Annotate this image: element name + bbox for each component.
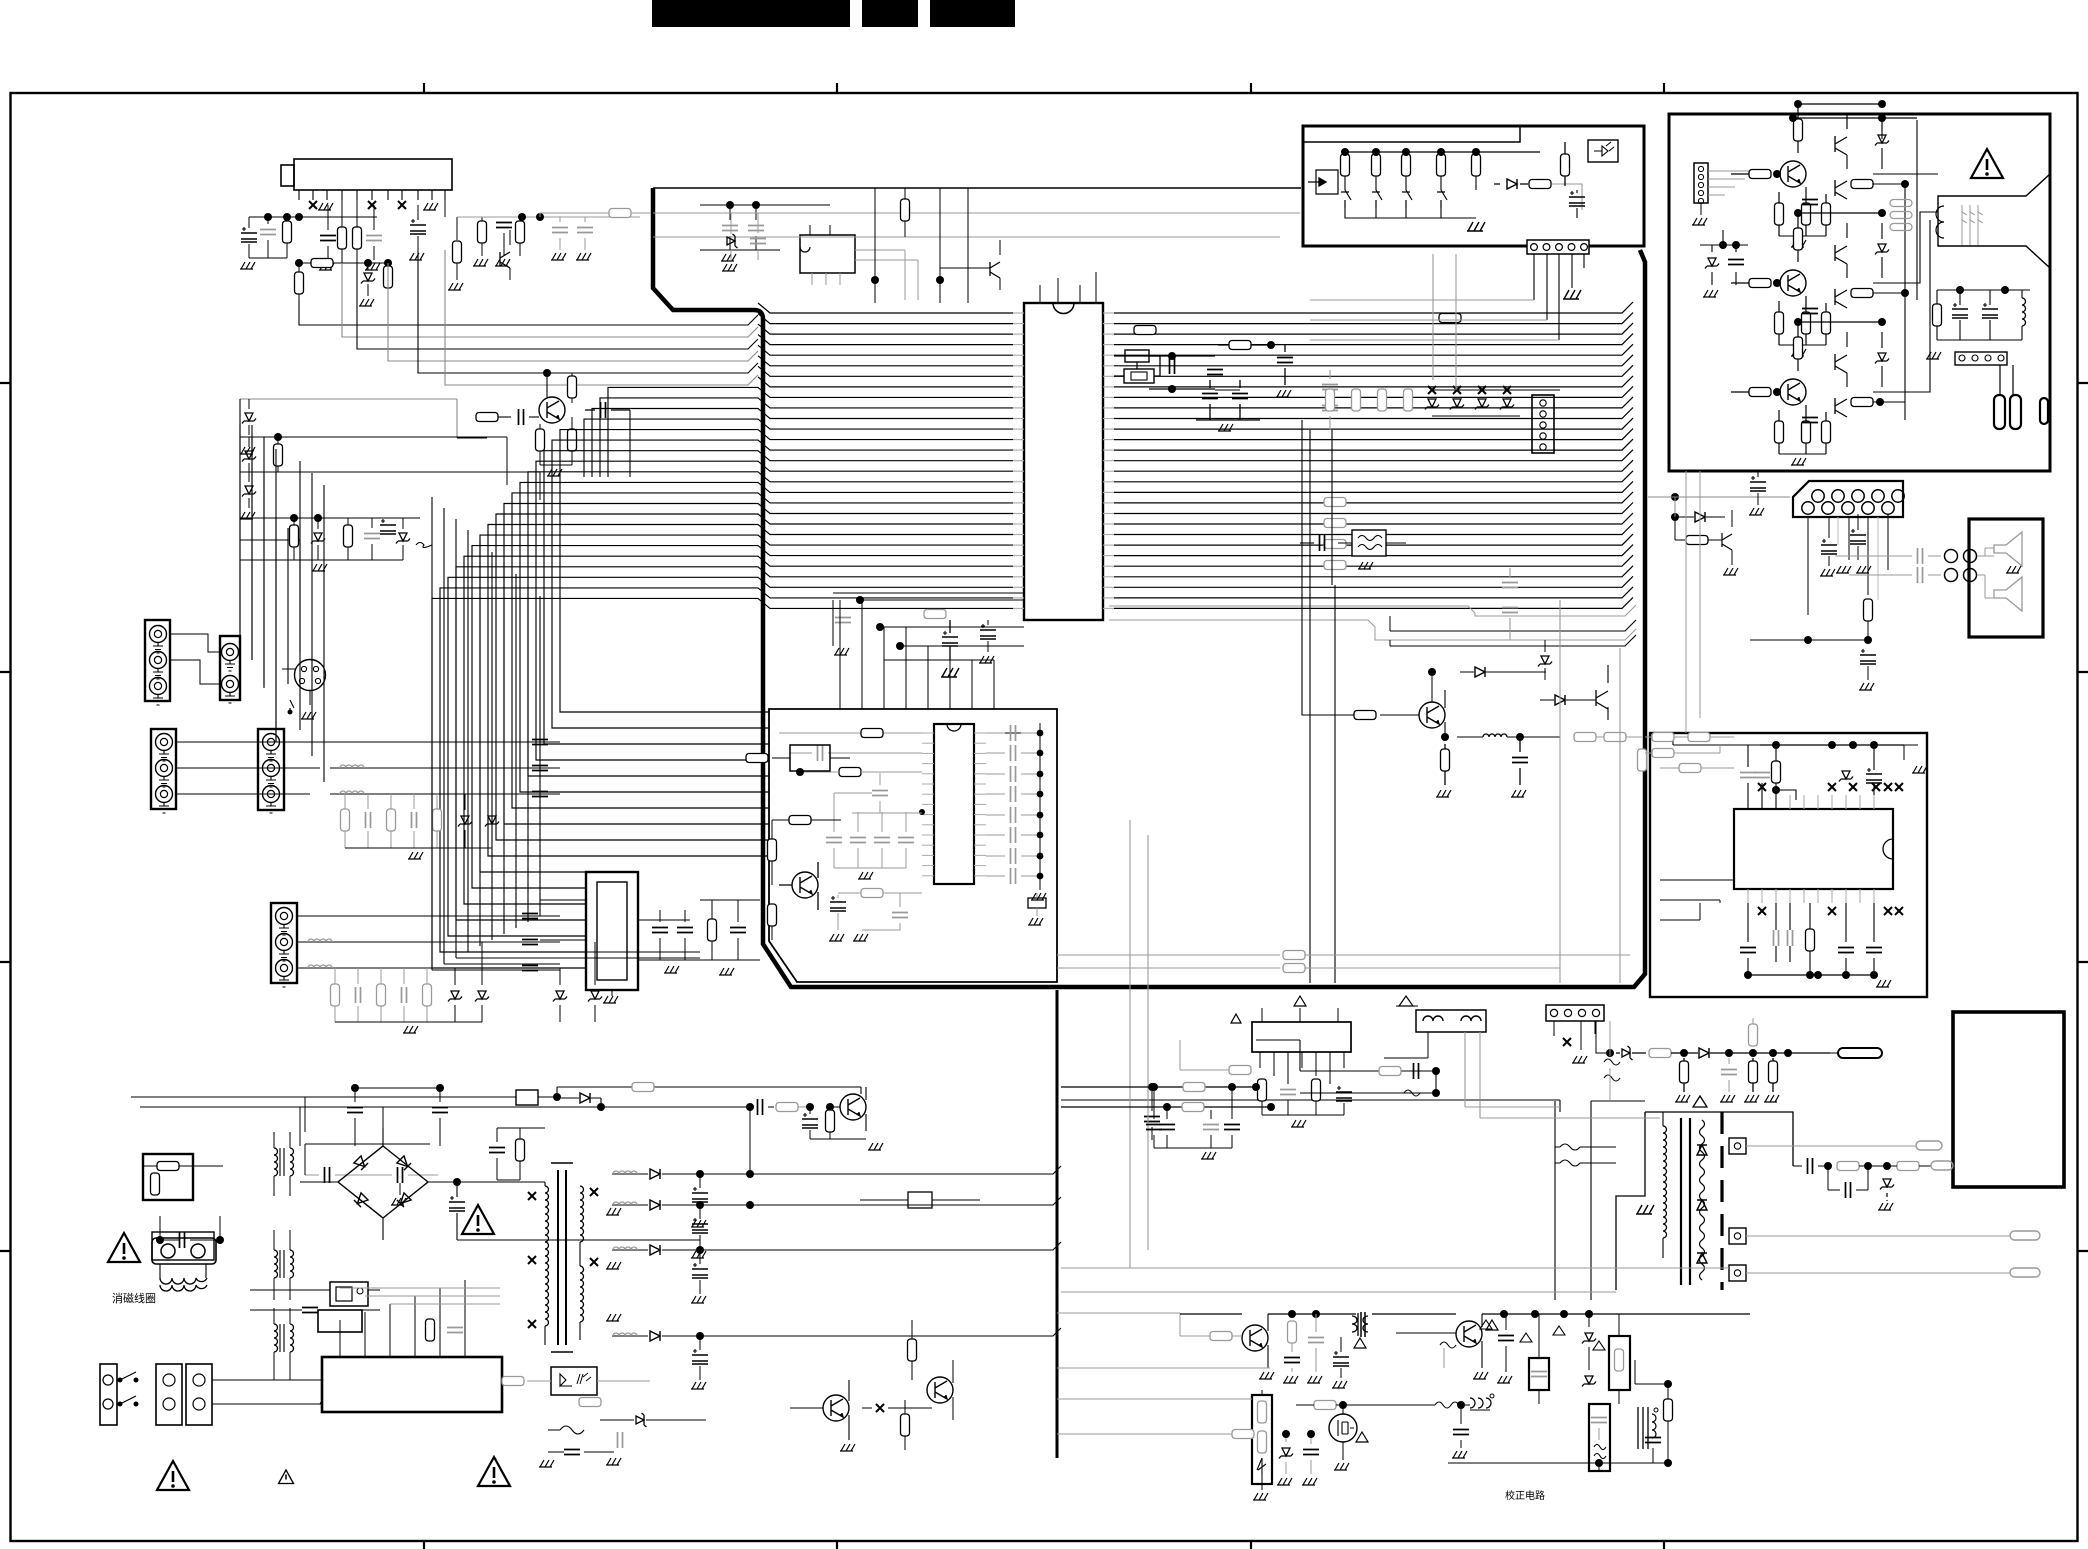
- U2 pin stubs: [922, 732, 934, 734]
- keyboard drop verticals: [1433, 254, 1456, 390]
- PSU secondary diodes: [650, 1169, 660, 1179]
- pincushion divider box: [1252, 1395, 1272, 1484]
- bridge top caps: [347, 1108, 363, 1113]
- keyboard switches: [1341, 190, 1351, 208]
- B+ to FBT: [1061, 1087, 1560, 1112]
- linearity cap: [1645, 1438, 1661, 1443]
- AFT feed: [445, 200, 457, 240]
- width coil: [1470, 1398, 1491, 1408]
- DIN switch: [290, 700, 294, 714]
- tuner ecap right: [410, 219, 426, 234]
- H-out rail: [1482, 1313, 1750, 1315]
- FBT rectifier diodes: [1697, 1145, 1707, 1155]
- yoke connector wires: [1384, 1032, 1428, 1058]
- U3 bottom caps: [1774, 930, 1779, 946]
- ABL sense resistor: [1604, 1059, 1620, 1081]
- U3 top pins: [1747, 795, 1749, 809]
- AV out caps: [1821, 539, 1837, 554]
- warning triangle CRT: [1971, 149, 2003, 178]
- vertical block pins: [1259, 1052, 1261, 1068]
- FBT dashed insulation: [1720, 1112, 1723, 1290]
- U2 bottom RC: [861, 889, 883, 898]
- width cap: [1453, 1430, 1469, 1435]
- MOSFET gate resistor: [1314, 1401, 1336, 1410]
- snubber: [516, 1139, 525, 1161]
- AV3 jack block: [151, 729, 176, 809]
- filter cluster under tuner: [240, 518, 420, 540]
- reset RC: [1229, 341, 1251, 350]
- FBT inner box line: [1591, 1101, 1645, 1300]
- audio box feed 2: [1652, 749, 1674, 758]
- chroma trap: [708, 919, 717, 941]
- tuner block TU1: [294, 159, 452, 190]
- sub-board inner border: [769, 709, 1057, 982]
- x marks row: [1428, 386, 1436, 394]
- ceramic filter CF1: [1352, 530, 1386, 556]
- deflection 4pin connector: [1546, 1005, 1604, 1021]
- T3 secondary winding: [580, 1186, 584, 1214]
- X2 safety caps: [302, 1308, 318, 1313]
- tuner AGC row: [295, 259, 303, 267]
- mute Q cluster: [1671, 493, 1679, 501]
- tuner pin stubs: [298, 190, 300, 200]
- AV in coupling caps: [532, 740, 548, 745]
- diode pair: [1555, 695, 1565, 705]
- CRT driver stage 1: [1780, 161, 1806, 187]
- yoke connector coils: [1416, 1010, 1486, 1032]
- U3 top x marks: [1758, 783, 1766, 791]
- tuner mid caps: [320, 236, 336, 241]
- U1 bypass cap: [942, 631, 958, 646]
- mute transistor: [1596, 690, 1608, 709]
- T3 x marks: [528, 1192, 536, 1200]
- CRT input gnd: [1700, 203, 1702, 215]
- IC top pin stubs: [1040, 272, 1096, 303]
- PSU switch Q: [823, 1395, 849, 1421]
- U2 right cap bank 1: [986, 723, 1040, 733]
- mid verticals group: [1310, 430, 1335, 983]
- width coil feed: [1435, 1402, 1459, 1408]
- left routing bundle C: [432, 497, 540, 970]
- U2 left cap cluster: [826, 838, 842, 843]
- PSU primary rail: [457, 1182, 700, 1240]
- opto coupler: [551, 1367, 597, 1395]
- bus mid caps: [1502, 583, 1518, 588]
- PSU rail verticals: [300, 1097, 383, 1146]
- pincushion MOSFET: [1329, 1414, 1357, 1442]
- H rail completion: [1180, 1313, 1456, 1315]
- svg-text:校正电路: 校正电路: [1505, 1489, 1545, 1502]
- SMPS transformer T3: [558, 1170, 566, 1345]
- sub-board to bottom thick rail: [1056, 990, 1059, 1458]
- title redaction bar 1: [652, 0, 850, 27]
- keyboard rail: [1345, 151, 1540, 153]
- bus cap taps: [1322, 385, 1338, 390]
- vertical block lower parts: [1258, 1079, 1267, 1101]
- audio input resistor: [1679, 764, 1701, 773]
- H-drive collector rail: [1268, 1313, 1356, 1315]
- heater rail loads: [1680, 1061, 1689, 1083]
- CRT drive input connector: [1694, 163, 1708, 203]
- AV5 jack block: [271, 903, 297, 983]
- AV out rail: [1750, 639, 1868, 641]
- IF amp input: [240, 399, 457, 438]
- AV output connector CN5: [1793, 481, 1903, 517]
- AV4 jack block: [258, 729, 284, 810]
- U1 left pin bus: [1013, 312, 1024, 314]
- V-block cap bank: [1146, 1125, 1162, 1130]
- AC switch: [120, 1372, 136, 1404]
- U2 left components: [779, 732, 922, 734]
- vertical block top pins: [1262, 1008, 1338, 1022]
- tuner left decoupling cluster: [249, 216, 377, 218]
- U1 lower right black rails: [1390, 620, 1636, 631]
- audio IC U3: [1734, 809, 1893, 889]
- CRT stage interconnect verticals: [1882, 120, 1917, 420]
- degauss connector: [152, 1238, 216, 1264]
- keyboard connector CN2: [1527, 240, 1589, 254]
- CRT box feed verticals: [1686, 471, 1700, 733]
- right-mid diodes: [1425, 399, 1439, 410]
- heater feed resistor: [1749, 1024, 1758, 1046]
- FBT secondary: [1700, 1120, 1705, 1280]
- left-bottom cluster caps: [652, 928, 668, 933]
- crystal X1 cluster: [1114, 356, 1160, 376]
- audio box top feed: [1652, 733, 1674, 742]
- keyboard diode indicator: [1588, 140, 1618, 162]
- standby rail resistors: [1574, 733, 1596, 742]
- keyboard box frame: [1303, 126, 1644, 246]
- AC wires: [212, 1380, 420, 1404]
- H-drive ecap: [1333, 1351, 1349, 1366]
- error amp RC: [560, 1426, 584, 1434]
- FBT terminals: [1729, 1138, 1746, 1154]
- vserrate feedback: [1229, 1066, 1251, 1075]
- right bus resistor row 2: [1134, 326, 1156, 335]
- controller pins: [339, 1320, 341, 1357]
- vertical out block: [1252, 1022, 1351, 1052]
- keyboard IR cap: [1561, 154, 1570, 176]
- FBT warning: [1693, 1096, 1707, 1107]
- standby ecap: [1750, 476, 1766, 491]
- AC connector pair: [156, 1364, 182, 1425]
- heater rail: [1596, 1021, 1608, 1053]
- boundary feed lines: [457, 437, 487, 439]
- relay/thermistor pack: [330, 1282, 368, 1306]
- controller drive resistor: [426, 1319, 435, 1341]
- CRT socket block: [1953, 1012, 2064, 1187]
- degauss coil: [160, 1264, 206, 1278]
- H-drive transformer: [1352, 1313, 1368, 1336]
- AV detect diodes: [553, 991, 567, 1002]
- CRT G1 rail caps: [1956, 286, 1964, 294]
- H-out base resistor: [1440, 1342, 1456, 1348]
- audio out gray links: [1835, 556, 1912, 575]
- 5-pin connector CN3: [1532, 395, 1554, 453]
- posistor box: [152, 1232, 214, 1260]
- main board thick boundary: [653, 188, 1645, 987]
- PSU controller box: [322, 1357, 502, 1412]
- B+ coupling: [758, 1099, 763, 1115]
- pincushion input lines: [1057, 1399, 1252, 1434]
- IC supply filter: [1202, 394, 1218, 399]
- line filter transformer T2: [274, 1250, 278, 1278]
- U3 gnd right: [1903, 745, 1905, 760]
- FBT core: [1681, 1118, 1690, 1285]
- bridge rectifier: [338, 1146, 428, 1218]
- warning triangle cap: [462, 1205, 494, 1234]
- sub-board transistor Q7: [792, 872, 818, 898]
- speaker box: [1969, 519, 2043, 637]
- vertical feeds above IC: [875, 188, 968, 303]
- mains X-cap: [180, 1232, 185, 1248]
- fuse box: [143, 1154, 193, 1200]
- D2 gnd: [603, 996, 618, 1003]
- V-block right rc rows: [1300, 1071, 1436, 1093]
- tuner supply rail: [457, 216, 640, 218]
- linearity coil: [1638, 1407, 1648, 1449]
- tuner pin marks: [309, 201, 317, 209]
- main board top boundary wire: [653, 187, 1301, 189]
- startup resistor chain: [908, 1339, 917, 1361]
- S-correction box: [1589, 1404, 1610, 1471]
- T3 primary winding: [545, 1186, 549, 1214]
- standby feed vertical: [1302, 420, 1354, 715]
- IF box D2: [586, 872, 638, 990]
- ABL zener: [1880, 1179, 1894, 1190]
- CRT focus leads: [2000, 365, 2013, 395]
- fusible link: [320, 1399, 344, 1409]
- AV out resistor: [1864, 599, 1873, 621]
- ABL chain: [1793, 1165, 1802, 1167]
- error amp Q10: [840, 1094, 866, 1120]
- main filter cap: [449, 1196, 465, 1211]
- linearity resistor: [1664, 1399, 1673, 1421]
- x-ray protect diode: [1538, 656, 1552, 667]
- mid horizontal group: [1057, 955, 1280, 968]
- U3 bottom rail: [1748, 974, 1874, 976]
- H-drive warn: [1354, 1338, 1366, 1348]
- U2 right cap bank 2: [1011, 827, 1016, 843]
- FBT terminal wires: [1746, 1145, 1916, 1147]
- sub-board voltage reg: [790, 745, 830, 771]
- ABL cap: [1846, 1182, 1851, 1198]
- speaker L: [1994, 532, 2022, 566]
- relay driver region: [908, 1192, 932, 1208]
- H yoke wires: [1635, 1360, 1668, 1384]
- standby driver Q5: [1419, 702, 1445, 728]
- IF out cap: [601, 402, 606, 418]
- top rail parts: [727, 234, 738, 248]
- U1 right pin bus: [1103, 312, 1114, 314]
- keyboard arrow: [1308, 178, 1326, 186]
- AV2 jack block: [220, 636, 240, 700]
- jack bundle verticals: [240, 399, 276, 742]
- line filter cap pair: [325, 1167, 330, 1183]
- sub-board crystal: [1028, 898, 1046, 908]
- line filter transformer T2b: [274, 1324, 278, 1352]
- AV in filter cluster 2: [297, 916, 560, 968]
- AFT transistor Q2: [500, 252, 510, 268]
- keyboard resistors: [1341, 154, 1350, 176]
- U3 bottom pins: [1747, 889, 1749, 903]
- left routing bundle A: [240, 425, 276, 742]
- CRT drive outputs to neck: [1873, 174, 1938, 392]
- U3 right rail cap: [1866, 768, 1882, 783]
- H-drive stage: [1242, 1325, 1268, 1351]
- U3 supply resistor: [1772, 761, 1781, 783]
- FBT left rail resistors: [1554, 1101, 1556, 1300]
- warning triangle AC: [157, 1461, 189, 1490]
- retrace cap boxes: [1529, 1358, 1549, 1390]
- FBT primary winding: [1663, 1126, 1667, 1154]
- warning triangle degauss: [108, 1233, 140, 1262]
- speaker gnd: [2006, 566, 2021, 573]
- vertical warn marks: [1294, 996, 1306, 1006]
- PSU-to-rail output lines: [700, 1166, 1061, 1336]
- U3 feedback resistor: [1806, 929, 1815, 951]
- CRT bias zener: [1705, 258, 1719, 269]
- H-out transistor: [1456, 1321, 1482, 1347]
- AC inlet plug: [100, 1364, 117, 1425]
- supply resistor: [609, 209, 631, 218]
- audio amp box frame: [1650, 733, 1927, 997]
- drive line from rail: [1057, 1313, 1180, 1336]
- speaker R: [1994, 577, 2022, 611]
- gray top rails: [653, 213, 1300, 237]
- AV1 jack block: [145, 620, 170, 701]
- title redaction bar 2: [862, 0, 918, 27]
- IC bottom pin cluster: [833, 593, 1024, 646]
- relay diode: [580, 1093, 590, 1103]
- speaker jack circles: [1945, 550, 1958, 563]
- sub IC U2: [934, 724, 974, 884]
- CRT driver stage 2: [1780, 270, 1806, 296]
- PSU gnd symbols: [606, 1208, 621, 1215]
- left edge small parts: [242, 413, 256, 424]
- correction bottom rail: [1448, 1462, 1668, 1464]
- AV in filter cluster 1: [330, 742, 560, 794]
- relay box: [516, 1090, 538, 1105]
- left bundle lower links: [432, 952, 700, 970]
- line filter transformer T1: [274, 1148, 278, 1176]
- right bus series resistors: [1324, 498, 1346, 507]
- crystal trim: [1215, 389, 1240, 391]
- feedback TL431: [636, 1413, 647, 1427]
- delay line resistors: [1326, 389, 1335, 411]
- CRT top rail: [1793, 117, 1917, 119]
- yoke return lines: [1061, 1268, 1729, 1292]
- IC bottom to sub-board verticals: [840, 600, 994, 709]
- gray vertical pair to deflection: [1130, 820, 1148, 1268]
- AV out drops: [1808, 514, 1888, 615]
- IF amp Q1: [539, 397, 565, 423]
- left routing bundle B: [300, 461, 324, 782]
- EEPROM pullups: [722, 226, 738, 231]
- FBT ground: [1636, 1205, 1654, 1214]
- yoke connector drops: [1465, 1032, 1480, 1118]
- pincushion clamp: [1279, 1448, 1293, 1459]
- keyboard gnd2: [1563, 290, 1581, 299]
- CRT neck symbol: [1938, 174, 2050, 268]
- CRT drive box frame: [1669, 114, 2050, 471]
- EEPROM bus to IC: [855, 250, 918, 300]
- damper diodes: [1582, 1333, 1596, 1344]
- U3 left routing: [1660, 880, 1734, 920]
- V-block feed lines: [1061, 1087, 1271, 1107]
- warning small AC: [279, 1470, 294, 1484]
- AFT cluster: [457, 216, 540, 218]
- CRT driver stage 3: [1780, 379, 1806, 405]
- CRT 4pin connector: [1955, 352, 2007, 365]
- retrace caps triangles: [1480, 1320, 1492, 1329]
- S-video DIN connector: [295, 660, 326, 691]
- PSU secondary caps: [692, 1187, 708, 1202]
- keyboard gnd: [1467, 222, 1485, 231]
- svg-text:消磁线圈: 消磁线圈: [112, 1291, 156, 1305]
- sub-board left resistor: [789, 816, 811, 825]
- U3 top rail: [1760, 744, 1904, 746]
- FBT outline: [1616, 1112, 1793, 1290]
- warning PSU: [478, 1457, 510, 1486]
- title redaction bar 3: [930, 0, 1015, 27]
- AV jack wires: [170, 634, 220, 684]
- B+ rail: [140, 1106, 748, 1108]
- PSU aux parts: [901, 1414, 910, 1436]
- keyboard connector drops: [1534, 254, 1584, 340]
- keyboard LED: [1507, 179, 1517, 189]
- tuner bus staircase: [299, 300, 758, 325]
- U1 lower right gray rails: [1109, 605, 1636, 616]
- U3 input caps: [1740, 773, 1756, 778]
- PSU top rail upper: [557, 1087, 861, 1094]
- reset transistor: [990, 262, 1000, 278]
- EEPROM IC U4: [800, 235, 855, 273]
- main IC U1: [1024, 303, 1103, 620]
